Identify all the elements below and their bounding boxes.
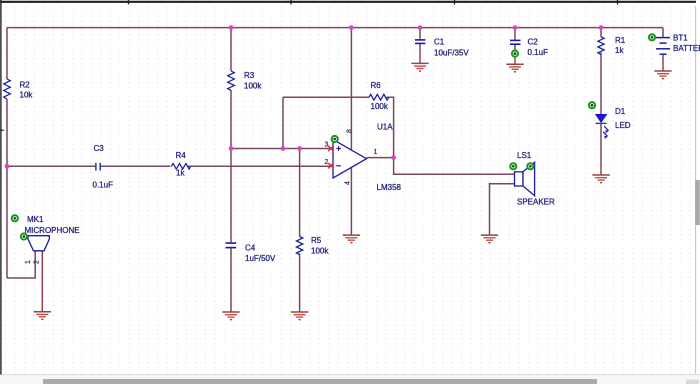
wire R5 branch vertical <box>299 149 301 312</box>
ground D1 <box>592 175 609 183</box>
capacitor C4 <box>226 243 276 263</box>
wire C2 leads <box>514 28 516 64</box>
resistor R1 <box>598 36 626 55</box>
junction pin3 R5 <box>297 146 302 151</box>
microphone MK1 <box>25 215 80 264</box>
no-ERC marker C2 <box>512 51 518 57</box>
svg-text:4: 4 <box>345 181 352 185</box>
battery BT1 <box>656 34 700 55</box>
svg-text:10uF/35V: 10uF/35V <box>434 49 469 58</box>
ground C1 <box>411 63 428 71</box>
wire op-amp output <box>367 157 394 159</box>
resistor R6 <box>369 81 389 111</box>
resistor R5 <box>296 236 329 256</box>
no-ERC marker MK1 a <box>12 215 18 221</box>
resistor R3 <box>228 71 263 91</box>
svg-text:R2: R2 <box>20 80 31 89</box>
wire top supply rail <box>7 27 663 29</box>
svg-text:C2: C2 <box>528 38 539 47</box>
svg-text:LS1: LS1 <box>517 151 532 160</box>
svg-text:BATTERY: BATTERY <box>673 44 700 53</box>
ground C2 <box>506 64 523 72</box>
svg-text:R1: R1 <box>615 36 626 45</box>
capacitor C3 <box>93 144 114 189</box>
no-ERC marker MK1 b <box>21 233 27 239</box>
svg-text:R4: R4 <box>176 151 187 160</box>
svg-text:100k: 100k <box>371 102 389 111</box>
sheet border left <box>0 0 4 375</box>
junction pin3 R3 <box>229 146 234 151</box>
svg-text:8: 8 <box>347 129 354 133</box>
no-ERC marker op-amp pin3 <box>332 136 338 142</box>
wire R6 feedback horizontal <box>283 97 394 157</box>
junction top rail pin8 <box>349 25 354 30</box>
svg-text:SPEAKER: SPEAKER <box>517 198 555 207</box>
wire R3 branch vertical <box>230 28 232 312</box>
svg-text:R3: R3 <box>244 71 255 80</box>
svg-text:1k: 1k <box>615 46 624 55</box>
wire op-amp pin4 to ground <box>350 168 352 235</box>
svg-text:R5: R5 <box>311 236 322 245</box>
svg-text:C3: C3 <box>94 144 105 153</box>
no-ERC marker D1 <box>589 102 595 108</box>
wire left rail vertical (R2 branch) <box>6 28 8 278</box>
junction left rail <box>5 164 10 169</box>
svg-text:1uF/50V: 1uF/50V <box>245 254 276 263</box>
svg-text:0.1uF: 0.1uF <box>528 48 549 57</box>
sheet border top <box>0 0 696 5</box>
ground R5 <box>291 312 308 320</box>
junction pin3 feedback <box>281 146 286 151</box>
svg-text:C4: C4 <box>245 243 256 252</box>
LED D1 <box>596 107 631 139</box>
capacitor C1 <box>415 38 469 58</box>
ground C4 <box>222 312 239 320</box>
no-ERC marker BT1 <box>649 34 655 40</box>
no-ERC marker LS1 a <box>510 163 516 169</box>
wire battery branch <box>662 28 664 71</box>
junction top rail R3 <box>229 25 234 30</box>
junction output <box>391 155 396 160</box>
ground MK1 <box>34 312 51 320</box>
no-ERC marker LS1 b <box>527 163 533 169</box>
junction top rail C1 <box>418 25 423 30</box>
wire output to speaker <box>394 158 515 175</box>
svg-text:MICROPHONE: MICROPHONE <box>25 226 80 235</box>
wire microphone pin1 to left rail <box>7 251 35 278</box>
wire C1 leads <box>419 28 421 63</box>
ground BT1 <box>654 71 671 79</box>
svg-text:100k: 100k <box>244 81 262 90</box>
svg-text:LED: LED <box>615 121 631 130</box>
svg-text:MK1: MK1 <box>27 215 44 224</box>
svg-text:1: 1 <box>374 149 378 156</box>
svg-text:C1: C1 <box>434 38 445 47</box>
svg-text:2: 2 <box>325 159 329 166</box>
resistor R4 <box>172 151 191 178</box>
junction top rail R1 <box>599 25 604 30</box>
wire op-amp pin8 supply <box>350 28 352 150</box>
wire speaker to ground <box>490 184 515 235</box>
svg-text:BT1: BT1 <box>673 34 688 43</box>
svg-text:1k: 1k <box>176 169 185 178</box>
svg-text:D1: D1 <box>615 107 626 116</box>
junction top rail C2 <box>513 25 518 30</box>
svg-text:LM358: LM358 <box>377 183 402 192</box>
wire main signal line to pin2 <box>7 165 331 167</box>
svg-text:1: 1 <box>25 260 32 264</box>
svg-text:0.1uF: 0.1uF <box>93 180 114 189</box>
ground LS1 <box>481 235 498 243</box>
ground op-amp pin4 <box>343 235 360 243</box>
speaker LS1 <box>515 151 556 207</box>
svg-text:10k: 10k <box>20 90 34 99</box>
svg-text:3: 3 <box>325 142 329 149</box>
wire microphone pin2 to ground <box>41 251 43 311</box>
svg-text:R6: R6 <box>371 81 382 90</box>
wire pin3 line <box>231 148 331 150</box>
wire R1 branch vertical <box>600 28 602 175</box>
svg-text:100k: 100k <box>311 247 329 256</box>
capacitor C2 <box>510 38 548 58</box>
svg-text:2: 2 <box>33 260 40 264</box>
svg-text:U1A: U1A <box>377 122 393 131</box>
op-amp U1A <box>325 122 402 192</box>
resistor R2 <box>4 79 34 99</box>
wire feedback left vertical <box>282 97 284 148</box>
